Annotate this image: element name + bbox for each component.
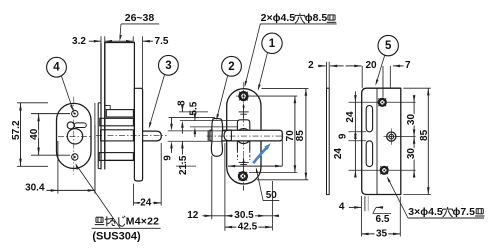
- svg-text:5: 5: [385, 40, 392, 52]
- svg-text:24: 24: [333, 148, 344, 160]
- svg-text:30: 30: [406, 148, 417, 160]
- svg-text:3×ϕ4.5: 3×ϕ4.5: [408, 206, 443, 218]
- svg-text:(SUS304): (SUS304): [92, 230, 141, 242]
- svg-text:3.2: 3.2: [72, 36, 86, 47]
- svg-text:24: 24: [345, 111, 356, 123]
- svg-text:9: 9: [162, 155, 173, 161]
- svg-text:35: 35: [376, 228, 388, 239]
- svg-text:1: 1: [269, 38, 276, 50]
- svg-text:2: 2: [228, 61, 234, 73]
- svg-text:21.5: 21.5: [178, 155, 189, 175]
- svg-text:4: 4: [339, 202, 345, 213]
- svg-text:85: 85: [295, 130, 306, 142]
- svg-text:40: 40: [29, 128, 40, 140]
- svg-text:50: 50: [266, 190, 278, 201]
- svg-text:2: 2: [308, 60, 314, 71]
- svg-text:ϕ8.5: ϕ8.5: [305, 12, 328, 24]
- svg-text:57.2: 57.2: [11, 120, 22, 140]
- svg-text:12: 12: [187, 210, 199, 221]
- svg-text:7: 7: [405, 60, 411, 71]
- svg-text:30.4: 30.4: [25, 183, 45, 194]
- svg-text:30: 30: [406, 114, 417, 126]
- svg-text:85: 85: [419, 129, 430, 141]
- svg-text:42.5: 42.5: [238, 222, 258, 233]
- svg-text:ϕ7.5: ϕ7.5: [452, 206, 475, 218]
- svg-text:20: 20: [365, 60, 377, 71]
- svg-text:4: 4: [53, 62, 60, 74]
- svg-text:6.5: 6.5: [376, 214, 390, 225]
- svg-text:7.5: 7.5: [155, 36, 169, 47]
- svg-text:2×ϕ4.5: 2×ϕ4.5: [261, 12, 296, 24]
- svg-text:30.5: 30.5: [234, 210, 254, 221]
- svg-text:26~38: 26~38: [125, 12, 155, 24]
- svg-text:9: 9: [337, 133, 348, 139]
- svg-text:24: 24: [140, 197, 152, 208]
- svg-text:3: 3: [165, 60, 171, 72]
- svg-text:M4×22: M4×22: [126, 215, 159, 227]
